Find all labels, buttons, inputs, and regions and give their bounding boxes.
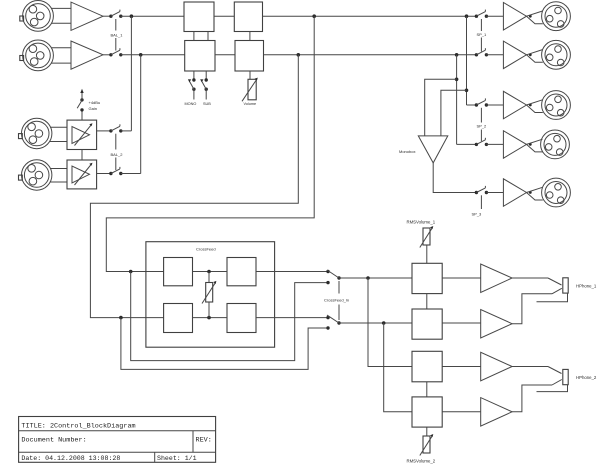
wire crossfeed out R [256, 317, 328, 319]
jack contact blade [548, 367, 562, 374]
svg-text:+4dBu: +4dBu [89, 100, 101, 105]
node out3 [529, 104, 532, 107]
block filter B2 [234, 2, 262, 32]
switch BAL_1b [109, 48, 122, 56]
svg-text:SP_2: SP_2 [477, 124, 488, 129]
variable gain amp U2 [67, 160, 97, 189]
XLR input connector J3 [19, 118, 52, 148]
svg-text:Document Number:: Document Number: [21, 437, 86, 445]
op-amp headphone driver H4 [481, 398, 512, 427]
node out2 [529, 53, 532, 56]
jack contact blade [552, 288, 562, 294]
op-amp output driver A7 [503, 179, 526, 207]
svg-text:Monobox: Monobox [399, 149, 415, 154]
wire bus L [263, 15, 477, 17]
variable gain amp U1 [67, 120, 97, 149]
wire row4 feed [457, 143, 477, 145]
op-amp output driver A4 [503, 41, 526, 69]
XLR output connector J6 [542, 40, 571, 69]
XLR output connector J9 [542, 178, 571, 207]
svg-text:SUB: SUB [203, 102, 211, 106]
svg-text:CrossFeed: CrossFeed [196, 247, 216, 252]
wire hp1 sleeve [537, 293, 568, 302]
wire right vertical R to row4 [456, 55, 458, 145]
wire [442, 277, 481, 279]
op-amp headphone driver H3 [481, 352, 512, 381]
block crossfeed TL [164, 258, 193, 286]
svg-text:HPhone_1: HPhone_1 [576, 284, 597, 289]
wire monitor input 1 [425, 79, 457, 136]
switch SP1a [475, 10, 488, 31]
XLR output connector J8 [541, 130, 570, 159]
wire balanced out [527, 144, 543, 152]
wire balanced out [527, 105, 543, 113]
block crossfeed BR [227, 304, 256, 333]
node out4 [529, 143, 532, 146]
svg-text:Sheet: 1/1: Sheet: 1/1 [157, 455, 197, 462]
wire balanced out [527, 193, 543, 201]
switch gain +4dBu [77, 89, 84, 120]
block filter B3 [185, 41, 215, 72]
node pot top [207, 270, 211, 274]
XLR input connector J1 [20, 1, 54, 32]
svg-text:Gain: Gain [89, 106, 97, 111]
title block frame [19, 417, 216, 463]
op-amp headphone driver H1 [481, 264, 512, 293]
wire headphone L1 feed [339, 277, 412, 279]
node monitor tap R [455, 78, 459, 82]
wire row3 feed [467, 104, 477, 106]
wire [486, 192, 503, 194]
node hp2 L tap [366, 276, 370, 280]
wire monitor output [433, 163, 476, 193]
wire hp2 L vertical [368, 278, 412, 367]
switch BAL_2a [109, 124, 122, 149]
wire crossfeed out L [256, 271, 328, 273]
svg-text:REV:: REV: [196, 437, 212, 445]
node busL-right [465, 14, 469, 18]
wire B2-B4 link [249, 32, 251, 41]
wire [50, 181, 67, 183]
svg-text:BAL_2: BAL_2 [111, 152, 124, 157]
potentiometer RMS volume 2 [420, 427, 434, 455]
node busR-crossfeed tap [297, 53, 301, 57]
op-amp output driver A6 [503, 131, 526, 159]
wire bus R down to crossfeed input R [90, 55, 298, 318]
wire [52, 62, 72, 64]
node out1 [529, 15, 532, 18]
wire [103, 15, 111, 17]
wire [121, 130, 132, 132]
wire [214, 15, 234, 17]
wire V3-V4 [426, 382, 428, 397]
wire [52, 22, 72, 24]
op-amp A1 [71, 2, 103, 30]
op-amp A2 [71, 41, 103, 69]
node busR-bal1 [139, 53, 143, 57]
block crossfeed TR [227, 258, 256, 286]
wire hp2 R vertical [384, 323, 412, 412]
wire balanced out [527, 55, 543, 63]
wire [121, 15, 184, 17]
wire hp1 ring [512, 294, 552, 324]
potentiometer RMS volume 1 [420, 226, 434, 263]
wire [442, 366, 481, 368]
wire hp2 tip [512, 366, 548, 368]
svg-text:BAL_1: BAL_1 [111, 32, 124, 37]
op-amp monitor sum [418, 136, 448, 163]
wire B1-B3 link a [193, 32, 195, 41]
switch SUB [200, 71, 208, 100]
XLR output connector J5 [542, 2, 571, 31]
switch MONO [188, 71, 196, 100]
wire inter-stage [81, 150, 83, 161]
potentiometer crossfeed amount [202, 272, 216, 318]
svg-text:RMSVolume_2: RMSVolume_2 [407, 459, 436, 464]
wire hp2 sleeve [537, 385, 568, 392]
node monitor tap L [465, 89, 469, 93]
switch SP2a [475, 98, 488, 122]
wire balanced out [527, 11, 543, 16]
op-amp headphone driver H2 [481, 310, 512, 339]
headphone jack HP2 [563, 369, 568, 384]
wire [121, 173, 141, 175]
svg-text:HPhone_2: HPhone_2 [576, 375, 597, 380]
wire [486, 15, 503, 17]
block crossfeed BL [164, 304, 193, 333]
node busL-crossfeed tap [312, 14, 316, 18]
wire [51, 47, 71, 49]
crossfeed block outline [146, 242, 275, 348]
svg-text:RMSVolume_1: RMSVolume_1 [407, 219, 436, 224]
block attenuator V2 [412, 309, 442, 339]
svg-text:MONO: MONO [185, 102, 197, 106]
switch BAL_1a [109, 10, 122, 31]
switch BAL_1b actuator [115, 38, 117, 51]
headphone jack HP1 [563, 278, 568, 293]
wire [486, 104, 503, 106]
switch crossfeed select L [326, 270, 340, 294]
wire bypass L [131, 272, 328, 361]
svg-text:Date: 04.12.2008 13:08:28: Date: 04.12.2008 13:08:28 [21, 455, 120, 462]
wire [50, 126, 67, 128]
XLR output connector J7 [542, 91, 571, 120]
jack contact blade [552, 380, 562, 386]
block filter B4 [235, 41, 264, 72]
wire balanced out [527, 100, 543, 105]
wire right vertical L to row3 [466, 16, 468, 105]
node bypass R tap [119, 316, 123, 320]
switch SP3 [475, 186, 488, 209]
svg-text:SP_1: SP_1 [477, 32, 488, 37]
switch BAL_2b [109, 167, 122, 175]
wire [442, 411, 481, 413]
wire [486, 143, 503, 145]
block attenuator V1 [412, 263, 442, 293]
XLR input connector J4 [19, 160, 52, 190]
wire [97, 130, 111, 132]
wire hp1 tip [512, 277, 548, 279]
node busL-bal1 [130, 14, 134, 18]
XLR input connector J2 [20, 40, 54, 71]
wire [50, 141, 67, 143]
wire [103, 54, 111, 56]
wire TL-TR [193, 271, 228, 273]
wire [97, 173, 111, 175]
svg-text:SP_3: SP_3 [472, 212, 483, 217]
wire [121, 54, 185, 56]
wire bypass R [121, 318, 328, 370]
node pot bottom [207, 316, 211, 320]
block filter B1 [184, 2, 214, 32]
wire [215, 54, 235, 56]
wire [50, 168, 67, 170]
op-amp output driver A3 [503, 3, 526, 31]
wire monitor input 2 [441, 90, 467, 136]
wire V1-V2 [426, 294, 428, 309]
node out5 [529, 191, 532, 194]
potentiometer Volume [242, 71, 258, 101]
block attenuator V4 [412, 397, 442, 427]
wire [51, 7, 71, 9]
wire ch1 BAL select vertical [130, 16, 132, 131]
block attenuator V3 [412, 351, 442, 382]
wire BL-BR [193, 317, 228, 319]
node hp2 R tap [382, 321, 386, 325]
switch SP1b [475, 38, 488, 57]
wire balanced out [527, 139, 543, 144]
op-amp output driver A5 [503, 91, 526, 119]
wire ch2 BAL select vertical [140, 55, 142, 174]
wire balanced out [527, 187, 543, 192]
wire bus L down to crossfeed input L [106, 16, 314, 271]
wire hp2 ring [512, 385, 552, 412]
node bypass L tap [129, 270, 133, 274]
wire headphone R1 feed [339, 322, 412, 324]
svg-text:Volume: Volume [244, 102, 257, 106]
svg-text:TITLE: 2Control_BlockDiagram: TITLE: 2Control_BlockDiagram [21, 422, 135, 430]
wire bus R [264, 54, 477, 56]
wire balanced out [527, 50, 543, 55]
wire B1-B3 link b [207, 32, 209, 41]
switch crossfeed select R [326, 305, 340, 330]
jack contact blade [548, 278, 562, 285]
wire [442, 322, 481, 324]
switch SP2b [475, 130, 488, 147]
switch BAL_2b actuator [115, 158, 117, 171]
wire balanced out [527, 16, 543, 24]
svg-text:CrossFeed_In: CrossFeed_In [324, 297, 349, 302]
wire [486, 54, 503, 56]
node busR-right [455, 53, 459, 57]
